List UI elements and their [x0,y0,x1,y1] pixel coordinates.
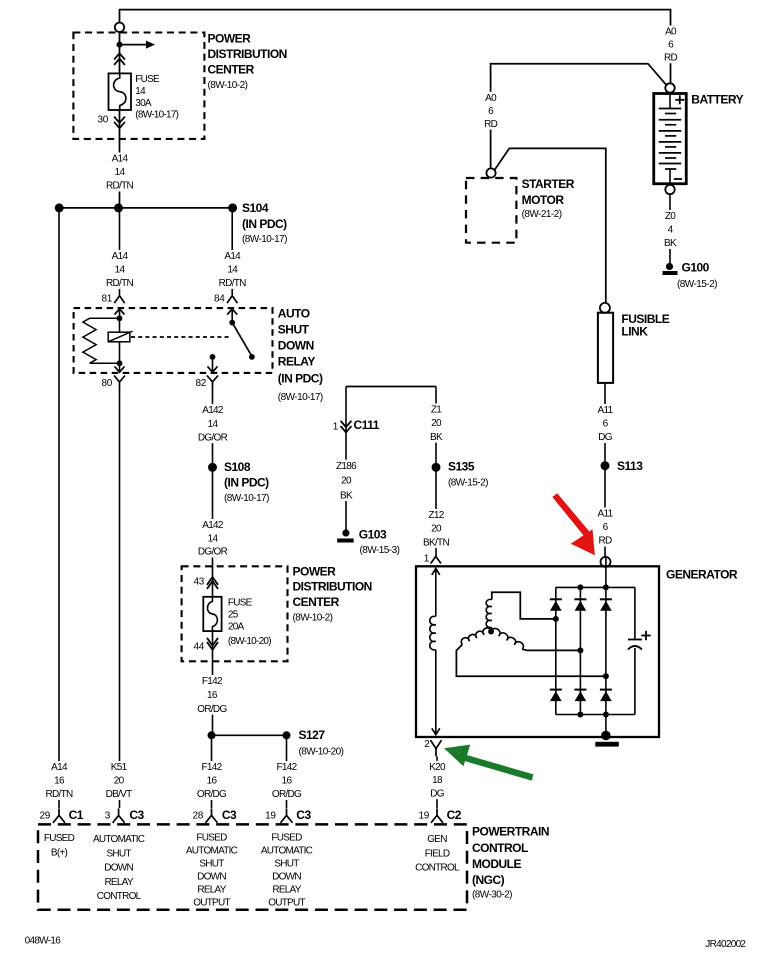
svg-text:29: 29 [39,810,50,821]
PDC terminal circle [115,23,124,32]
relay switch arm (open) [232,323,251,356]
svg-text:POWERTRAIN: POWERTRAIN [472,824,549,838]
svg-text:G100: G100 [682,261,710,275]
connector double chevron pin into fuse 14 [114,53,125,59]
svg-text:A14: A14 [112,154,129,165]
generator output terminal circle [601,557,611,567]
svg-text:RD/TN: RD/TN [106,181,134,192]
svg-text:Z186: Z186 [336,461,357,472]
svg-text:CENTER: CENTER [293,595,340,609]
svg-text:DG/OR: DG/OR [198,432,228,443]
svg-text:19: 19 [265,810,276,821]
diode string 2 [579,587,581,714]
svg-text:DOWN: DOWN [197,872,226,883]
svg-text:A14: A14 [51,762,68,773]
node S104 dots [55,203,64,212]
starter motor terminal circle [486,168,495,177]
battery internal plates [669,95,671,109]
svg-text:1: 1 [333,422,339,433]
svg-text:RELAY: RELAY [272,885,301,896]
wire PDC feed down to bus S104 [119,32,121,73]
wire label Z12 20 BK/TN [418,509,454,548]
battery plus sign [675,99,684,101]
svg-text:CONTROL: CONTROL [415,863,460,874]
svg-text:A142: A142 [202,520,224,531]
wire A11 6 DG fusible link to S113 [604,383,606,466]
svg-text:RD/TN: RD/TN [219,278,247,289]
svg-text:2: 2 [424,739,430,750]
svg-text:RELAY: RELAY [104,877,133,888]
svg-text:S135: S135 [448,460,475,474]
svg-text:(8W-15-2): (8W-15-2) [677,279,717,290]
diode string 3 output leg [605,557,607,737]
fuse F14 30A [109,73,132,110]
svg-text:44: 44 [193,642,204,653]
capacitor branch [634,587,636,639]
svg-text:RD/TN: RD/TN [45,789,73,800]
svg-text:048W-16: 048W-16 [25,936,62,947]
svg-text:FUSE: FUSE [135,74,160,85]
PCM pin 19 C3 [286,808,288,815]
generator internal ground [601,731,611,741]
wire label Z186 20 BK [330,460,362,501]
svg-text:F142: F142 [202,762,223,773]
svg-text:(8W-10-2): (8W-10-2) [208,80,248,91]
svg-text:B(+): B(+) [51,848,68,859]
diode string 1 [555,587,557,714]
svg-text:82: 82 [195,378,206,389]
svg-text:Z1: Z1 [431,405,442,416]
junction dot with flow arrow [117,42,123,48]
svg-text:16: 16 [207,776,218,787]
svg-text:AUTOMATIC: AUTOMATIC [93,834,145,845]
wire label A142 lower [196,519,230,557]
svg-text:14: 14 [115,167,126,178]
svg-text:GENERATOR: GENERATOR [666,568,738,582]
svg-text:14: 14 [227,265,238,276]
wire F142 fuse 25 to S127 [212,661,214,735]
svg-text:(8W-21-2): (8W-21-2) [522,209,562,220]
svg-text:A11: A11 [598,405,614,416]
svg-text:C3: C3 [222,808,237,822]
generator box [416,566,659,737]
svg-text:S127: S127 [299,728,326,742]
relay coil zigzag winding [90,317,120,319]
pin 44 connector [212,631,214,661]
svg-text:20: 20 [341,476,352,487]
svg-text:19: 19 [418,810,429,821]
splice S108 [208,463,217,472]
svg-text:A11: A11 [598,509,614,520]
green arrow annotation [444,745,534,781]
relay mechanical dashed link [131,336,229,338]
svg-text:DOWN: DOWN [272,872,301,883]
svg-text:RD: RD [484,119,498,130]
svg-text:(IN PDC): (IN PDC) [242,217,287,231]
svg-text:28: 28 [192,810,203,821]
svg-text:MODULE: MODULE [472,857,521,871]
svg-text:FUSE: FUSE [228,598,253,609]
fusible link terminal circle [600,303,610,313]
svg-text:(NGC): (NGC) [472,873,505,887]
svg-text:SHUT: SHUT [106,848,131,859]
svg-text:FUSED: FUSED [271,833,302,844]
stator left winding [461,628,491,645]
svg-text:(8W-10-17): (8W-10-17) [278,392,323,403]
wire label A14 14 RD/TN (upper) [103,153,137,192]
wire left column A14 16 RD/TN to PCM pin 29 [58,208,60,808]
svg-text:DG: DG [430,788,445,799]
svg-text:RELAY: RELAY [197,885,226,896]
battery minus terminal circle [665,185,674,194]
svg-text:C111: C111 [354,418,380,432]
svg-text:POWER: POWER [208,32,252,46]
svg-text:DG/OR: DG/OR [198,547,228,558]
svg-text:(IN PDC): (IN PDC) [278,371,323,385]
svg-text:K51: K51 [111,762,128,773]
wire top feed from PDC to battery A0 6 RD [120,10,671,84]
fusible link body [598,313,613,383]
wire column to relay pin 81 [119,208,121,295]
splice S135 [432,463,441,472]
svg-text:(8W-15-3): (8W-15-3) [360,545,400,556]
svg-text:20: 20 [431,524,442,535]
svg-text:K20: K20 [429,762,446,773]
svg-text:C2: C2 [447,808,462,822]
svg-text:(8W-10-17): (8W-10-17) [135,110,178,121]
svg-text:(8W-30-2): (8W-30-2) [472,889,512,900]
ground G103 [342,529,349,536]
svg-text:F142: F142 [277,762,298,773]
svg-text:STARTER: STARTER [522,177,575,191]
svg-text:(8W-10-20): (8W-10-20) [228,636,271,647]
splice S127 node dots and bus [208,731,216,739]
svg-text:S104: S104 [242,201,269,215]
svg-text:OUTPUT: OUTPUT [193,898,230,909]
power distribution center box (top left) [73,33,204,139]
svg-text:(8W-10-2): (8W-10-2) [293,612,333,623]
PCM pin 28 C3 [211,808,213,815]
stator Y center node [488,629,494,635]
svg-text:1: 1 [424,554,430,565]
C111 ground branch wires [346,386,436,388]
rectifier bottom rail [556,714,635,716]
svg-text:AUTO: AUTO [278,307,310,321]
svg-text:20: 20 [114,776,125,787]
relay pin 82 exit [208,366,218,372]
svg-text:(8W-10-17): (8W-10-17) [224,493,269,504]
svg-text:OUTPUT: OUTPUT [268,898,305,909]
wire Z0 4 BK battery to ground G100 [669,194,671,263]
wire A0 6 RD battery to starter motor [491,64,667,169]
svg-text:14: 14 [208,533,219,544]
splice S113 [601,461,610,470]
battery plus terminal circle [665,83,674,92]
wire K51 relay pin 80 to PCM pin 3 [119,391,121,808]
svg-text:MOTOR: MOTOR [522,193,565,207]
powertrain control module box [38,824,467,909]
svg-text:A14: A14 [224,251,241,262]
wire column to relay pin 84 [231,208,233,295]
wire K20 18 DG generator to PCM pin 19 C2 [436,756,438,808]
svg-text:3: 3 [105,810,111,821]
ground G100 [666,263,673,270]
svg-text:CONTROL: CONTROL [472,841,528,855]
wire F142 to PCM pin 28 [211,735,213,808]
svg-text:DISTRIBUTION: DISTRIBUTION [293,580,372,594]
stator right winding [491,628,523,649]
svg-text:FUSED: FUSED [44,833,75,844]
svg-text:GEN: GEN [427,834,447,845]
wire A11 6 RD to generator [604,466,606,557]
svg-text:14: 14 [208,419,219,430]
svg-text:FIELD: FIELD [425,848,450,859]
svg-text:RD: RD [664,53,678,64]
capacitor plus sign [641,635,650,637]
svg-text:DB/VT: DB/VT [106,789,133,800]
wire F142 to PCM pin 19 C3 [286,735,288,808]
svg-text:81: 81 [101,294,112,305]
svg-text:20: 20 [431,418,442,429]
generator field winding with arrows [432,569,440,575]
fuse F25 20A [203,597,221,631]
splice S104 bus [58,207,234,209]
svg-text:A14: A14 [112,251,129,262]
svg-text:DOWN: DOWN [278,339,314,353]
wire A142 relay pin 82 to fuse 25 [212,391,214,566]
svg-text:JR402002: JR402002 [705,939,746,950]
svg-text:SHUT: SHUT [199,859,224,870]
svg-text:BK: BK [340,490,353,501]
relay fixed contact to pin 82 [210,354,216,360]
svg-text:S108: S108 [224,460,251,474]
svg-text:43: 43 [193,577,204,588]
svg-text:RD/TN: RD/TN [106,278,134,289]
svg-text:14: 14 [115,265,126,276]
svg-text:LINK: LINK [621,324,648,338]
svg-text:DOWN: DOWN [104,863,133,874]
rectifier top rail [556,586,635,588]
power distribution center box 2 [182,566,288,661]
svg-text:16: 16 [207,690,218,701]
svg-text:18: 18 [432,775,443,786]
svg-text:30A: 30A [135,98,152,109]
svg-text:DISTRIBUTION: DISTRIBUTION [208,47,287,61]
svg-text:(IN PDC): (IN PDC) [224,476,269,490]
svg-text:POWER: POWER [293,565,337,579]
relay coil box symbol [108,332,130,342]
svg-text:AUTOMATIC: AUTOMATIC [261,846,313,857]
svg-text:AUTOMATIC: AUTOMATIC [186,846,238,857]
svg-text:Z0: Z0 [665,211,676,222]
svg-text:OR/DG: OR/DG [272,789,302,800]
svg-text:84: 84 [214,294,225,305]
svg-text:30: 30 [97,115,108,126]
svg-text:G103: G103 [359,527,387,541]
svg-text:A0: A0 [665,27,677,38]
svg-text:16: 16 [282,776,293,787]
svg-text:CENTER: CENTER [208,62,255,76]
starter motor box [466,178,516,243]
svg-text:BK/TN: BK/TN [423,537,449,548]
svg-text:80: 80 [101,378,112,389]
svg-text:RELAY: RELAY [278,355,316,369]
battery minus sign [674,178,682,180]
PCM pin 19 C2 [436,808,438,815]
relay switch common dot [229,320,235,326]
battery box [654,94,687,184]
svg-text:OR/DG: OR/DG [197,789,227,800]
svg-text:FUSED: FUSED [196,833,227,844]
PCM pin 3 C3 [118,808,120,815]
connector C111 [341,421,352,427]
svg-text:SHUT: SHUT [278,323,310,337]
svg-text:(8W-10-17): (8W-10-17) [242,234,287,245]
auto shut down relay box [74,308,273,373]
relay pin 80 exit [119,363,121,373]
red arrow annotation [552,493,595,555]
svg-text:A142: A142 [202,405,224,416]
wire label Z1 20 BK [422,403,450,442]
svg-text:C3: C3 [296,808,311,822]
svg-text:DG: DG [598,432,613,443]
svg-text:C1: C1 [69,808,84,822]
svg-text:S113: S113 [617,459,643,473]
stator winding top coil [492,592,553,619]
svg-text:BK: BK [430,432,443,443]
svg-text:25: 25 [228,610,239,621]
svg-text:BK: BK [664,238,677,249]
svg-text:(8W-10-20): (8W-10-20) [299,747,344,758]
svg-text:20A: 20A [228,621,245,632]
svg-text:RD: RD [598,536,612,547]
svg-text:A0: A0 [485,93,497,104]
svg-text:BATTERY: BATTERY [691,93,743,107]
svg-text:SHUT: SHUT [274,859,299,870]
svg-text:OR/DG: OR/DG [197,704,227,715]
relay coil branch node dots [117,315,123,321]
svg-text:14: 14 [135,86,146,97]
svg-text:(8W-15-2): (8W-15-2) [448,477,488,488]
svg-text:F142: F142 [202,676,223,687]
PCM pin 29 C1 [58,808,60,815]
wire starter to fusible link [495,148,606,303]
svg-text:CONTROL: CONTROL [97,891,142,902]
svg-text:Z12: Z12 [428,510,444,521]
svg-text:16: 16 [54,776,65,787]
svg-text:C3: C3 [129,808,144,822]
